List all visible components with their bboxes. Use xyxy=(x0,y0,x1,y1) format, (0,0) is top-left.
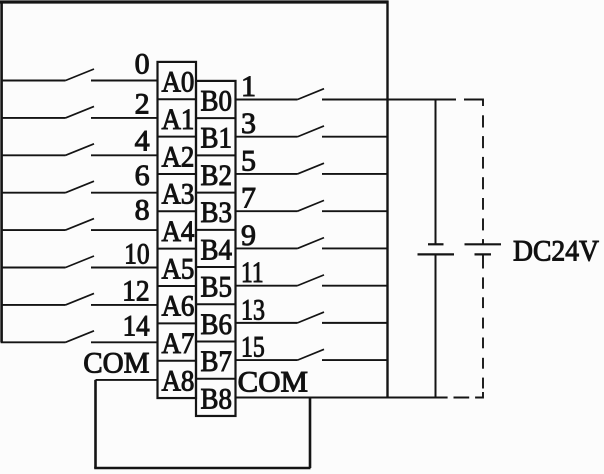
svg-text:A3: A3 xyxy=(161,178,194,211)
svg-text:A5: A5 xyxy=(161,252,194,285)
svg-text:15: 15 xyxy=(241,331,265,364)
svg-text:11: 11 xyxy=(241,256,264,289)
svg-text:10: 10 xyxy=(124,238,150,271)
svg-text:COM: COM xyxy=(238,366,308,399)
svg-text:2: 2 xyxy=(135,87,150,120)
svg-text:A0: A0 xyxy=(161,66,194,99)
svg-text:6: 6 xyxy=(135,159,150,192)
svg-text:0: 0 xyxy=(135,47,150,80)
svg-text:8: 8 xyxy=(135,194,150,227)
svg-text:B4: B4 xyxy=(201,233,233,266)
svg-text:3: 3 xyxy=(241,107,256,140)
svg-text:A8: A8 xyxy=(161,364,194,397)
svg-text:4: 4 xyxy=(135,125,150,158)
svg-text:A7: A7 xyxy=(161,327,194,360)
svg-text:9: 9 xyxy=(241,219,256,252)
svg-text:B2: B2 xyxy=(201,159,233,192)
svg-text:A1: A1 xyxy=(161,103,194,136)
svg-text:7: 7 xyxy=(241,182,256,215)
svg-text:14: 14 xyxy=(123,309,150,342)
svg-text:COM: COM xyxy=(83,346,149,379)
svg-text:B1: B1 xyxy=(201,122,233,155)
svg-text:12: 12 xyxy=(122,275,150,308)
svg-text:B5: B5 xyxy=(201,271,233,304)
svg-text:B6: B6 xyxy=(201,308,233,341)
svg-text:A2: A2 xyxy=(161,140,194,173)
svg-text:A6: A6 xyxy=(161,290,194,323)
svg-text:B3: B3 xyxy=(201,196,233,229)
svg-text:B0: B0 xyxy=(201,85,233,118)
svg-text:DC24V: DC24V xyxy=(513,234,599,267)
svg-text:B8: B8 xyxy=(201,382,233,415)
svg-text:5: 5 xyxy=(241,144,256,177)
svg-text:1: 1 xyxy=(241,70,256,103)
svg-text:13: 13 xyxy=(241,293,265,326)
svg-text:A4: A4 xyxy=(161,215,194,248)
svg-text:B7: B7 xyxy=(201,345,233,378)
